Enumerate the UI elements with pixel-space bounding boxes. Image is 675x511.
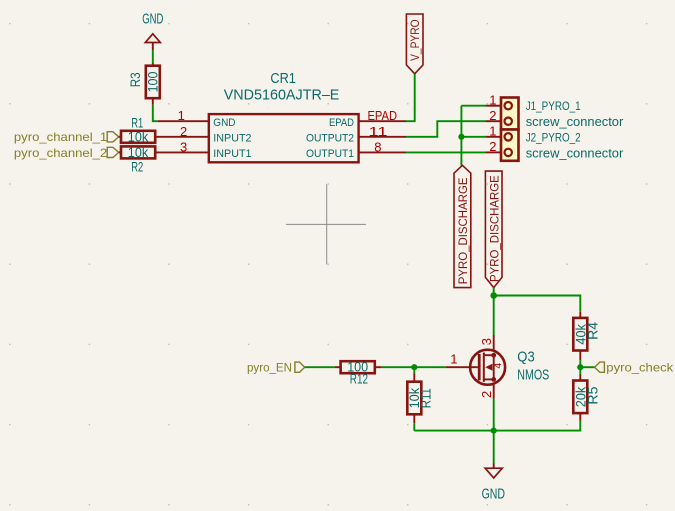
svg-text:100: 100	[146, 72, 161, 93]
svg-text:1: 1	[489, 124, 496, 139]
svg-text:CR1: CR1	[270, 70, 296, 87]
svg-text:GND: GND	[482, 486, 505, 502]
junction below PYRO_DISCHARGE	[490, 292, 497, 299]
svg-text:1: 1	[450, 352, 457, 367]
svg-text:R11: R11	[419, 388, 434, 408]
wire R5 to bottom rail	[414, 421, 580, 431]
wire J1 pin 1	[461, 105, 485, 107]
origin crosshair marker	[286, 184, 366, 264]
resistor R5	[573, 375, 600, 421]
svg-text:2: 2	[489, 108, 496, 123]
junction at gate node	[411, 364, 417, 370]
wire OUTPUT2 to J1 pin 2	[406, 121, 485, 137]
svg-text:screw_connector: screw_connector	[526, 114, 624, 129]
svg-text:EPAD: EPAD	[368, 108, 398, 123]
wire junction down to R11	[413, 367, 415, 373]
svg-text:GND: GND	[142, 12, 163, 28]
power symbol GND (bottom)	[482, 464, 505, 503]
IC U CR1 VND5160AJTR-E body	[209, 70, 359, 162]
svg-text:screw_connector: screw_connector	[526, 145, 624, 160]
svg-text:NMOS: NMOS	[517, 366, 549, 383]
transistor Q3 NMOS	[446, 335, 550, 399]
wire R11 to bottom rail	[413, 423, 415, 430]
CR1 pin EPAD	[329, 108, 406, 129]
svg-text:pyro_check: pyro_check	[606, 361, 674, 375]
svg-text:R2: R2	[131, 159, 143, 174]
svg-text:4: 4	[492, 363, 504, 369]
svg-text:VND5160AJTR–E: VND5160AJTR–E	[224, 87, 340, 104]
svg-text:GND: GND	[213, 117, 235, 129]
resistor R12	[335, 360, 381, 387]
svg-text:EPAD: EPAD	[329, 117, 354, 129]
svg-text:10k: 10k	[128, 145, 149, 160]
connector J2_PYRO_2	[485, 124, 624, 161]
svg-text:Q3: Q3	[517, 349, 534, 366]
svg-text:1: 1	[178, 108, 185, 123]
CR1 pin 3 INPUT1	[155, 139, 251, 160]
svg-text:R4: R4	[586, 321, 601, 340]
wire GND to R3	[152, 50, 154, 64]
wire Q3 source to bottom rail	[493, 399, 495, 431]
svg-text:R5: R5	[586, 387, 601, 405]
wire junction to R4	[494, 296, 581, 312]
hierarchical label pyro_channel_2	[14, 146, 119, 160]
svg-text:1: 1	[489, 92, 496, 107]
resistor R1	[119, 116, 156, 145]
junction at R4/R5	[577, 364, 583, 370]
wire J2 pin 1 stub	[461, 136, 485, 138]
wire EPAD to V_PYRO	[406, 74, 415, 121]
wire label to Q3 drain	[493, 288, 495, 335]
wire junction to gate	[414, 366, 446, 368]
svg-text:J2_PYRO_2: J2_PYRO_2	[526, 130, 581, 144]
svg-text:PYRO_DISCHARGE: PYRO_DISCHARGE	[487, 175, 501, 282]
junction at J2 pin 1	[458, 134, 464, 140]
svg-text:3: 3	[180, 139, 187, 154]
CR1 pin 11 OUTPUT2	[306, 124, 406, 145]
global label PYRO_DISCHARGE (right, attached bottom)	[485, 171, 502, 288]
CR1 pin 1 GND	[158, 108, 236, 129]
wire junction to pyro_check	[580, 366, 595, 368]
svg-text:pyro_EN: pyro_EN	[247, 361, 292, 375]
svg-text:INPUT1: INPUT1	[213, 148, 251, 160]
junction at bottom rail	[491, 428, 497, 434]
power symbol GND (top)	[142, 12, 163, 50]
resistor R2	[119, 145, 156, 174]
CR1 pin 2 INPUT2	[155, 124, 251, 145]
svg-text:OUTPUT2: OUTPUT2	[306, 133, 354, 145]
svg-text:2: 2	[479, 391, 494, 398]
svg-text:INPUT2: INPUT2	[213, 133, 251, 145]
wire vertical to PYRO_DISCHARGE label	[460, 106, 462, 166]
wire OUTPUT1 to J2 pin 2	[406, 151, 485, 153]
global label V_PYRO	[406, 14, 423, 74]
CR1 pin 8 OUTPUT1	[306, 139, 406, 160]
wire bottom rail to GND	[493, 431, 495, 464]
svg-text:10k: 10k	[128, 129, 149, 144]
hierarchical label pyro_EN	[247, 361, 305, 375]
svg-text:PYRO_DISCHARGE: PYRO_DISCHARGE	[456, 177, 470, 284]
connector J1_PYRO_1	[485, 92, 624, 129]
svg-text:V_PYRO: V_PYRO	[408, 19, 422, 61]
resistor R3	[128, 64, 161, 105]
resistor R11	[407, 373, 433, 423]
svg-text:2: 2	[489, 139, 496, 154]
svg-text:R3: R3	[128, 72, 143, 87]
svg-text:11: 11	[369, 124, 388, 139]
svg-text:pyro_channel_2: pyro_channel_2	[14, 146, 108, 160]
svg-text:J1_PYRO_1: J1_PYRO_1	[526, 99, 581, 113]
svg-text:3: 3	[479, 338, 494, 345]
global label PYRO_DISCHARGE (left, attached top)	[454, 165, 471, 287]
wire R3 to pin 1 of CR1	[153, 105, 158, 121]
wire pyro_EN to R12	[305, 366, 335, 368]
wire R12 to junction	[381, 366, 414, 368]
svg-text:pyro_channel_1: pyro_channel_1	[14, 130, 108, 144]
hierarchical label pyro_channel_1	[14, 130, 119, 144]
wire R4 to junction	[579, 360, 581, 374]
svg-text:8: 8	[374, 139, 381, 154]
svg-text:OUTPUT1: OUTPUT1	[306, 148, 354, 160]
resistor R4	[573, 312, 600, 360]
svg-text:2: 2	[180, 124, 187, 139]
svg-text:R12: R12	[350, 372, 368, 387]
hierarchical label pyro_check	[595, 361, 675, 375]
